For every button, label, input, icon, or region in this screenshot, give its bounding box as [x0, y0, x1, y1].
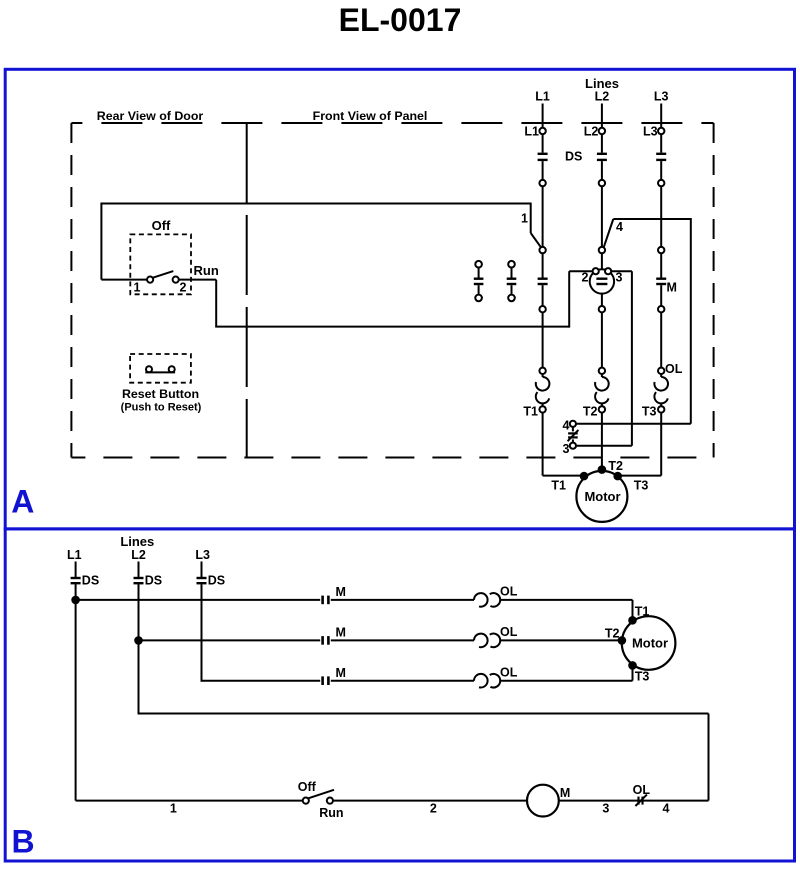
- wire L1 control drop: [75, 600, 77, 801]
- panel A frame: [5, 69, 794, 529]
- wire coil terminal 3 down to node 3: [611, 270, 632, 272]
- coil terminal 3: [605, 268, 611, 274]
- svg-text:Motor: Motor: [584, 489, 620, 504]
- svg-text:T2: T2: [605, 627, 620, 641]
- svg-text:L3: L3: [195, 548, 210, 562]
- OL heater rung1: [474, 593, 488, 607]
- svg-text:T3: T3: [642, 405, 657, 419]
- wire T1 to motor A: [543, 475, 584, 477]
- feeder line L1 with DS pole and M main contact: [542, 104, 544, 128]
- Off/Run selector switch dashed box: [130, 234, 191, 294]
- svg-text:L2: L2: [595, 90, 610, 104]
- node 4 terminal circle: [570, 421, 576, 427]
- svg-text:3: 3: [563, 442, 570, 456]
- svg-text:OL: OL: [665, 362, 683, 376]
- svg-text:4: 4: [563, 419, 570, 433]
- svg-text:1: 1: [170, 802, 177, 816]
- door/panel dashed divider: [246, 123, 248, 458]
- enclosure dashed outline bottom: [71, 457, 713, 459]
- line L2 with DS (panel B): [138, 562, 140, 578]
- line L1 with DS (panel B): [75, 562, 77, 578]
- svg-text:M: M: [336, 585, 346, 599]
- svg-text:3: 3: [602, 802, 609, 816]
- motor A terminal T3: [613, 472, 622, 481]
- feeder line L2 with DS pole and M main contact: [601, 104, 603, 128]
- wire control rung left: [76, 800, 303, 802]
- wire rung1 mid: [331, 599, 474, 601]
- feeder line L3 with DS pole and M main contact: [660, 104, 662, 128]
- svg-text:B: B: [12, 824, 35, 860]
- svg-text:L3: L3: [654, 90, 669, 104]
- svg-text:L1: L1: [524, 125, 539, 139]
- wire into Off/Run switch: [101, 279, 147, 281]
- Off/Run switch contact 1 (panel B): [303, 798, 309, 804]
- enclosure dashed outline right: [713, 123, 715, 458]
- svg-text:T2: T2: [608, 459, 623, 473]
- svg-text:Run: Run: [194, 263, 219, 278]
- spare aux contact 1: [475, 261, 482, 268]
- svg-text:DS: DS: [145, 573, 162, 587]
- svg-text:M: M: [336, 666, 346, 680]
- wire L2 to motor lead: [601, 413, 603, 470]
- node 3 terminal circle: [570, 443, 576, 449]
- svg-text:Run: Run: [319, 806, 343, 820]
- wire rung3 left: [202, 680, 321, 682]
- svg-text:T3: T3: [635, 670, 650, 684]
- overload heater L3: [658, 368, 664, 374]
- M contact rung3: [321, 676, 324, 685]
- switch contact 2 (panel A): [173, 277, 179, 283]
- svg-text:OL: OL: [500, 625, 518, 639]
- wire rung2 right: [500, 639, 622, 641]
- svg-text:T1: T1: [523, 405, 538, 419]
- svg-text:Lines: Lines: [120, 534, 154, 549]
- wire 4 vertical (right side): [690, 218, 692, 424]
- coil terminal 2: [593, 268, 599, 274]
- svg-text:M: M: [336, 626, 346, 640]
- coil M (panel B): [527, 785, 559, 817]
- svg-text:Reset Button: Reset Button: [122, 387, 199, 401]
- overload heater L1: [539, 368, 545, 374]
- switch blade (panel A): [153, 271, 173, 278]
- wire rung3 right: [500, 680, 632, 682]
- wire rung1 left: [76, 599, 321, 601]
- svg-text:4: 4: [616, 220, 623, 234]
- OL NC contact (panel B): [637, 797, 639, 805]
- panel B frame: [5, 529, 794, 861]
- svg-text:T3: T3: [634, 479, 649, 493]
- svg-text:T1: T1: [635, 604, 650, 618]
- wire rung1 right: [500, 599, 632, 601]
- motor B: [622, 616, 676, 670]
- reset button dashed box: [130, 354, 191, 383]
- wire rung3 mid: [331, 680, 474, 682]
- svg-text:2: 2: [180, 281, 187, 295]
- svg-text:1: 1: [521, 212, 528, 226]
- svg-text:Off: Off: [298, 780, 317, 794]
- OL heater rung3: [474, 674, 488, 688]
- contactor coil M (panel A): [590, 269, 614, 293]
- svg-text:T2: T2: [583, 405, 598, 419]
- wire T3 to motor A: [618, 475, 662, 477]
- svg-text:L3: L3: [643, 125, 658, 139]
- svg-text:OL: OL: [633, 783, 651, 797]
- svg-text:(Push to Reset): (Push to Reset): [121, 402, 202, 414]
- svg-text:M: M: [667, 280, 677, 294]
- wire Run to coil terminal 2: [179, 279, 216, 281]
- junction L2/rung2: [134, 636, 143, 645]
- svg-text:Front View of Panel: Front View of Panel: [313, 109, 428, 123]
- switch contact 1 (panel A): [147, 277, 153, 283]
- motor B terminal T1: [628, 616, 637, 625]
- svg-text:Off: Off: [152, 218, 171, 233]
- wire rung2 left: [139, 639, 321, 641]
- svg-text:L2: L2: [131, 548, 146, 562]
- svg-text:DS: DS: [82, 573, 99, 587]
- svg-text:4: 4: [663, 802, 670, 816]
- overload heater L2: [599, 368, 605, 374]
- wire rung2 mid: [331, 639, 474, 641]
- M contact rung1: [321, 596, 324, 605]
- reset button symbol: [146, 366, 152, 372]
- svg-text:T1: T1: [551, 479, 566, 493]
- wire node 4 to right riser: [576, 423, 691, 425]
- wire L2 control feed: [138, 640, 140, 713]
- enclosure dashed outline left: [70, 123, 72, 458]
- svg-text:M: M: [560, 786, 570, 800]
- svg-text:Rear View of Door: Rear View of Door: [97, 109, 204, 123]
- Off/Run switch contact 2 (panel B): [327, 798, 333, 804]
- line L3 with DS (panel B): [201, 562, 203, 578]
- wire L3 to motor lead: [660, 413, 662, 476]
- svg-text:DS: DS: [208, 573, 225, 587]
- svg-text:1: 1: [134, 281, 141, 295]
- svg-text:L1: L1: [535, 90, 550, 104]
- M contact rung2: [321, 636, 324, 645]
- wire 4 horizontal: [613, 218, 691, 220]
- motor B terminal T2: [618, 636, 627, 645]
- disconnect blade 1: [531, 233, 541, 247]
- svg-text:L1: L1: [67, 548, 82, 562]
- svg-text:OL: OL: [500, 666, 518, 680]
- wire drop at node 1: [530, 203, 532, 234]
- svg-text:OL: OL: [500, 585, 518, 599]
- wire coil to OL: [559, 800, 709, 802]
- wire switch to coil: [333, 800, 527, 802]
- junction L1/rung1: [71, 596, 80, 605]
- motor A terminal T2: [598, 465, 607, 474]
- motor B terminal T3: [628, 661, 637, 670]
- wire L1 to motor lead: [542, 413, 544, 476]
- wire door drop (left): [100, 203, 102, 280]
- svg-text:2: 2: [430, 802, 437, 816]
- motor A: [576, 471, 627, 522]
- motor A terminal T1: [580, 472, 589, 481]
- svg-text:L2: L2: [584, 125, 599, 139]
- enclosure dashed outline top: [71, 122, 713, 124]
- coil contact bars: [596, 278, 607, 280]
- svg-text:Motor: Motor: [632, 636, 668, 651]
- spare aux contact 2: [508, 261, 515, 268]
- Off/Run switch blade (panel B): [308, 790, 334, 799]
- svg-text:A: A: [11, 484, 34, 520]
- svg-text:2: 2: [582, 271, 589, 285]
- wire 1 (door switch to disconnect blade): [101, 203, 530, 205]
- OL heater rung2: [474, 634, 488, 648]
- svg-text:EL-0017: EL-0017: [339, 2, 462, 38]
- disconnect blade 4: [604, 219, 613, 247]
- overload NC contact (4-3): [572, 427, 574, 432]
- svg-text:3: 3: [616, 271, 623, 285]
- svg-text:DS: DS: [565, 149, 582, 163]
